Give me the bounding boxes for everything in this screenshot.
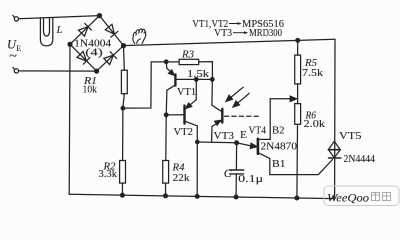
svg-text:7.5k: 7.5k	[302, 68, 324, 79]
svg-text:VT3: VT3	[214, 28, 232, 39]
svg-text:VT2: VT2	[174, 127, 194, 138]
svg-text:L: L	[56, 25, 63, 36]
svg-text:VT4: VT4	[249, 125, 267, 136]
svg-text:WeeQoo: WeeQoo	[327, 191, 369, 205]
svg-text:22k: 22k	[173, 173, 191, 184]
svg-text:E: E	[16, 44, 21, 53]
svg-text:VT3: VT3	[214, 131, 235, 142]
svg-text:VT5: VT5	[339, 131, 362, 142]
svg-text:B2: B2	[272, 125, 285, 136]
svg-text:R3: R3	[181, 49, 194, 60]
svg-text:2.0k: 2.0k	[304, 119, 326, 130]
svg-text:2N4870: 2N4870	[261, 141, 298, 152]
svg-text:E: E	[240, 130, 247, 141]
svg-text:0.1μ: 0.1μ	[238, 174, 263, 185]
svg-text:VT1: VT1	[177, 87, 196, 98]
svg-text:2N4444: 2N4444	[344, 154, 376, 165]
svg-text:C: C	[224, 166, 233, 180]
svg-text:1.5k: 1.5k	[187, 69, 210, 80]
svg-text:3.3k: 3.3k	[99, 169, 118, 180]
svg-text:B1: B1	[272, 159, 286, 170]
svg-text:~: ~	[9, 49, 17, 64]
svg-text:MRD300: MRD300	[249, 28, 282, 39]
svg-text:(4): (4)	[85, 46, 103, 58]
svg-text:10k: 10k	[83, 84, 98, 95]
svg-text:R4: R4	[171, 162, 185, 173]
